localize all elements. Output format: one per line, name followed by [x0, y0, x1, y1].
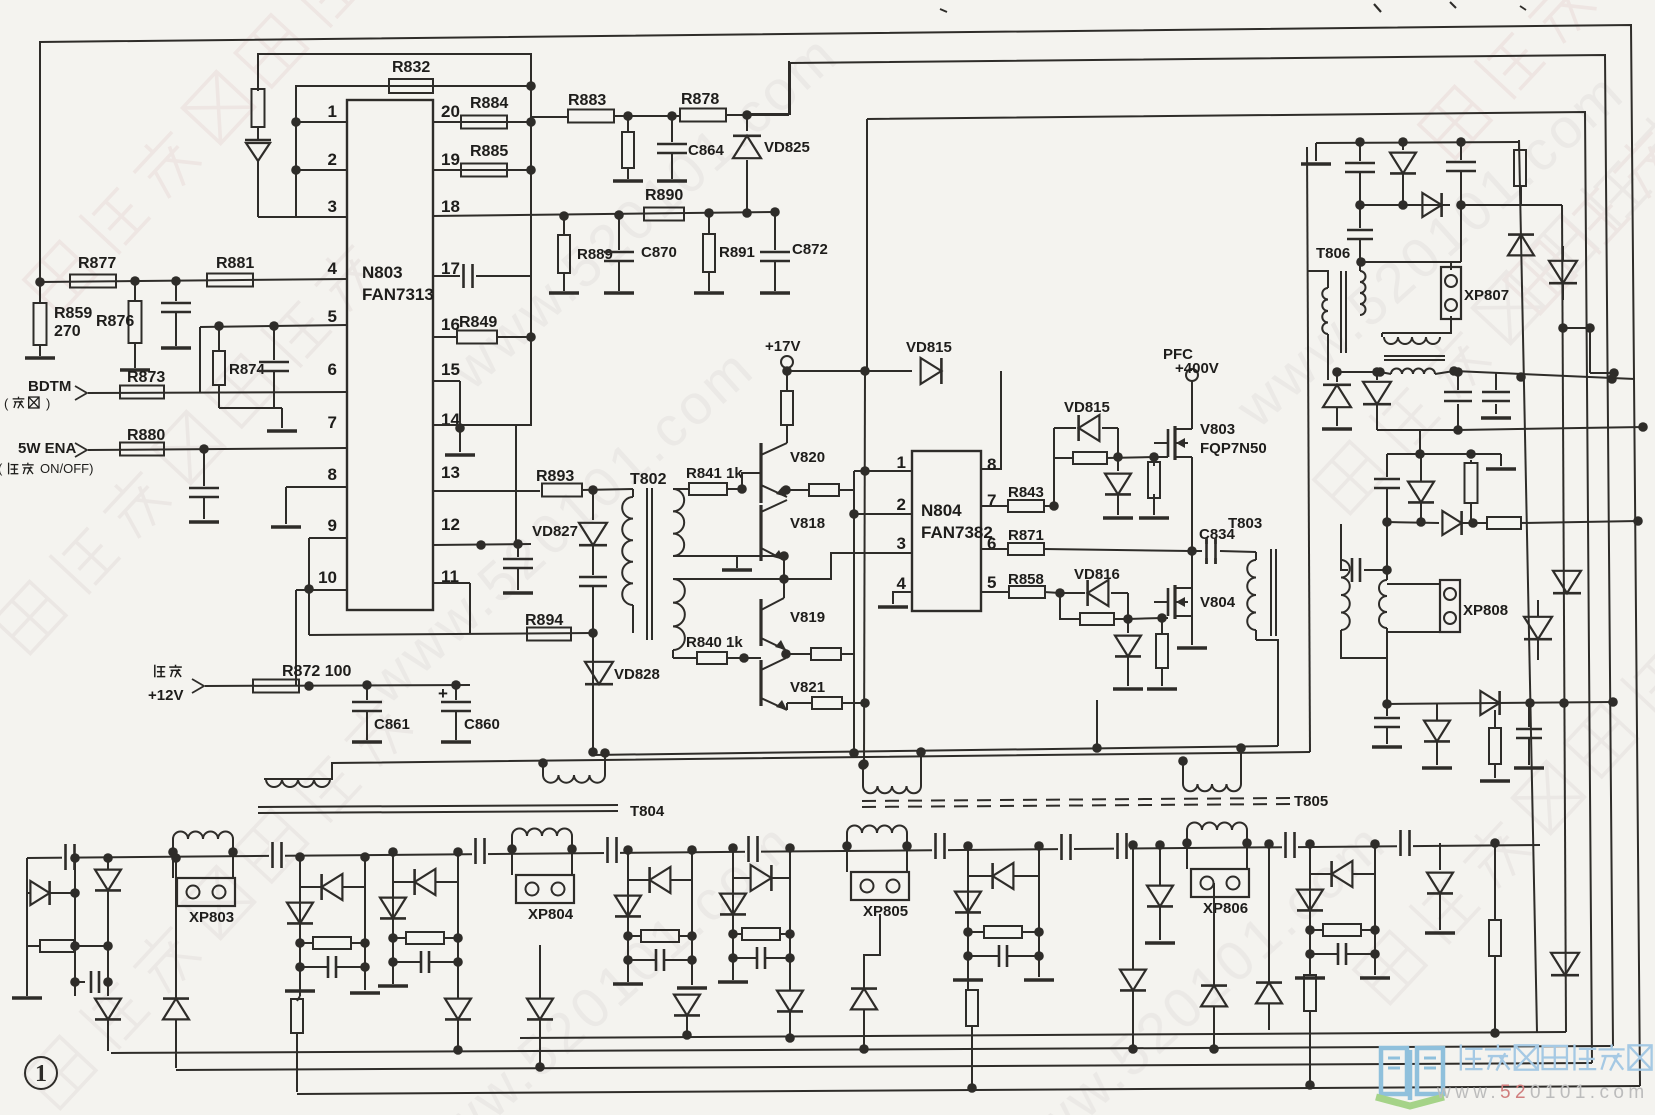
svg-text:www.520101.com: www.520101.com — [1436, 1082, 1649, 1103]
svg-text:R884: R884 — [470, 95, 508, 112]
svg-text:12: 12 — [441, 515, 460, 534]
svg-text:XP806: XP806 — [1203, 900, 1248, 917]
svg-text:3: 3 — [897, 534, 906, 553]
svg-text:C872: C872 — [792, 241, 828, 258]
svg-text:VD815: VD815 — [906, 339, 952, 356]
svg-text:R893: R893 — [536, 468, 574, 485]
svg-text:9: 9 — [328, 516, 337, 535]
svg-text:+400V: +400V — [1175, 360, 1219, 377]
svg-text:R876: R876 — [96, 313, 134, 330]
svg-text:N804: N804 — [921, 501, 962, 520]
svg-text:R874: R874 — [229, 361, 266, 378]
svg-text:1: 1 — [35, 1061, 47, 1087]
svg-text:T802: T802 — [630, 471, 667, 488]
svg-text:V820: V820 — [790, 449, 825, 466]
svg-text:(: ( — [0, 461, 3, 476]
svg-text:R883: R883 — [568, 92, 606, 109]
svg-text:19: 19 — [441, 150, 460, 169]
svg-text:FAN7313: FAN7313 — [362, 285, 434, 304]
svg-text:6: 6 — [987, 534, 996, 553]
svg-text:XP807: XP807 — [1464, 287, 1509, 304]
svg-text:8: 8 — [987, 455, 996, 474]
svg-text:8: 8 — [328, 465, 337, 484]
svg-text:15: 15 — [441, 360, 460, 379]
svg-text:7: 7 — [328, 413, 337, 432]
svg-text:VD827: VD827 — [532, 523, 578, 540]
svg-text:T803: T803 — [1228, 515, 1262, 532]
svg-text:10: 10 — [318, 568, 337, 587]
svg-text:www.520101.com: www.520101.com — [985, 809, 1398, 1115]
svg-text:13: 13 — [441, 463, 460, 482]
svg-text:R841 1k: R841 1k — [686, 465, 743, 482]
svg-text:T806: T806 — [1316, 245, 1350, 262]
svg-text:): ) — [46, 396, 50, 411]
svg-text:R873: R873 — [127, 369, 165, 386]
svg-text:VD816: VD816 — [1074, 566, 1120, 583]
svg-text:R859: R859 — [54, 305, 92, 322]
svg-text:R843: R843 — [1008, 484, 1044, 501]
svg-text:VD825: VD825 — [764, 139, 810, 156]
svg-text:R877: R877 — [78, 255, 116, 272]
svg-text:T805: T805 — [1294, 793, 1328, 810]
svg-text:XP803: XP803 — [189, 909, 234, 926]
svg-text:1: 1 — [328, 102, 337, 121]
svg-text:3: 3 — [328, 197, 337, 216]
svg-text:ON/OFF): ON/OFF) — [40, 461, 93, 476]
svg-text:+17V: +17V — [765, 338, 800, 355]
svg-text:V819: V819 — [790, 609, 825, 626]
svg-text:VD815: VD815 — [1064, 399, 1110, 416]
svg-text:2: 2 — [897, 495, 906, 514]
svg-text:7: 7 — [987, 491, 996, 510]
svg-text:T804: T804 — [630, 803, 665, 820]
svg-text:R885: R885 — [470, 143, 508, 160]
svg-text:BDTM: BDTM — [28, 378, 71, 395]
svg-text:6: 6 — [328, 360, 337, 379]
svg-text:R890: R890 — [645, 187, 683, 204]
svg-text:5: 5 — [328, 307, 337, 326]
svg-text:XP808: XP808 — [1463, 602, 1508, 619]
svg-text:2: 2 — [328, 150, 337, 169]
svg-text:C861: C861 — [374, 716, 410, 733]
svg-text:C870: C870 — [641, 244, 677, 261]
svg-text:4: 4 — [897, 574, 907, 593]
svg-text:1: 1 — [897, 453, 906, 472]
svg-text:V804: V804 — [1200, 594, 1236, 611]
svg-text:R881: R881 — [216, 255, 254, 272]
svg-text:VD828: VD828 — [614, 666, 660, 683]
svg-text:www.520101.com: www.520101.com — [1223, 59, 1636, 440]
svg-text:N803: N803 — [362, 263, 403, 282]
svg-text:5W ENA: 5W ENA — [18, 440, 77, 457]
svg-text:+12V: +12V — [148, 687, 183, 704]
svg-text:R840 1k: R840 1k — [686, 634, 743, 651]
svg-text:R858: R858 — [1008, 571, 1044, 588]
svg-text:R878: R878 — [681, 91, 719, 108]
svg-text:XP804: XP804 — [528, 906, 574, 923]
svg-text:18: 18 — [441, 197, 460, 216]
svg-text:+: + — [438, 684, 448, 703]
svg-text:FAN7382: FAN7382 — [921, 523, 993, 542]
svg-text:C860: C860 — [464, 716, 500, 733]
svg-text:4: 4 — [328, 259, 338, 278]
svg-text:R891: R891 — [719, 244, 755, 261]
svg-text:R871: R871 — [1008, 527, 1044, 544]
svg-text:V803: V803 — [1200, 421, 1235, 438]
svg-text:C864: C864 — [688, 142, 725, 159]
svg-text:5: 5 — [987, 573, 996, 592]
svg-text:XP805: XP805 — [863, 903, 908, 920]
svg-text:V818: V818 — [790, 515, 825, 532]
svg-text:R849: R849 — [459, 314, 497, 331]
svg-text:R872 100: R872 100 — [282, 663, 351, 680]
svg-text:R880: R880 — [127, 427, 165, 444]
svg-text:FQP7N50: FQP7N50 — [1200, 440, 1267, 457]
svg-text:R894: R894 — [525, 612, 563, 629]
svg-text:(: ( — [4, 396, 9, 411]
svg-text:R832: R832 — [392, 59, 430, 76]
svg-text:V821: V821 — [790, 679, 825, 696]
svg-text:20: 20 — [441, 102, 460, 121]
svg-text:270: 270 — [54, 323, 81, 340]
